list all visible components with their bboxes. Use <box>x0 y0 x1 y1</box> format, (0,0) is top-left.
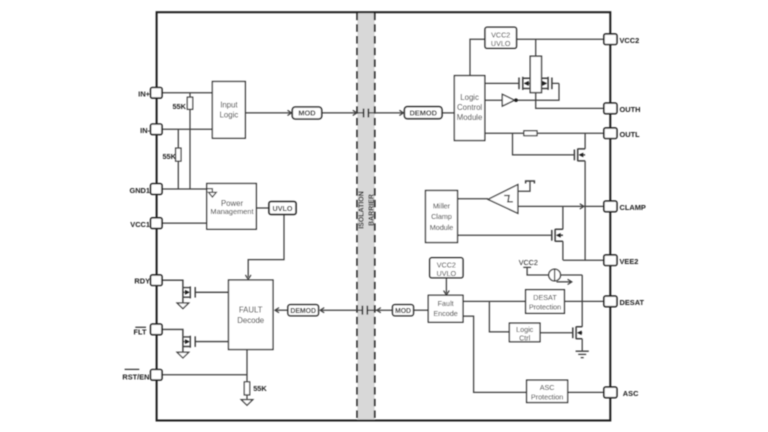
wire DEMOD to logic control module <box>442 112 454 114</box>
pin FLT <box>151 324 162 335</box>
wire comparator output to CLAMP pin <box>518 205 604 207</box>
wire VCC2 UVLO2 to fault encode <box>445 278 447 293</box>
ground under FLT fet <box>177 352 189 358</box>
buffer U1 <box>502 94 514 106</box>
IC outline frame <box>157 12 611 420</box>
wire comparator flag elbow <box>518 181 530 191</box>
RDY open-drain fet <box>162 280 229 303</box>
wire IN- row <box>162 128 213 130</box>
pin OUTL <box>604 128 617 139</box>
svg-text:ASC: ASC <box>623 389 639 398</box>
output fet right (pull side) <box>542 77 552 90</box>
svg-text:DEMOD: DEMOD <box>290 308 316 315</box>
wire desat fet source to ground <box>581 339 583 351</box>
resistor R3 55K body (RST/EN pulldown) <box>244 382 249 395</box>
wire resistor R1 vertical (IN+ to GND1 net) <box>189 93 191 189</box>
arrowhead into DEMOD2 right <box>320 308 324 313</box>
svg-text:BARRIER: BARRIER <box>368 194 375 226</box>
svg-text:Module: Module <box>457 113 483 122</box>
wire VEE2 row <box>563 259 604 261</box>
svg-text:MOD: MOD <box>395 308 411 315</box>
pin DESAT <box>604 296 617 307</box>
svg-text:OUTH: OUTH <box>620 105 641 114</box>
arrowhead into fault encode top <box>444 291 450 295</box>
pulldown fet on OUTL <box>574 149 585 162</box>
svg-text:OUTL: OUTL <box>620 130 641 139</box>
wire ASC protection to ASC pin <box>568 391 605 393</box>
wire DEMOD2 to fault decode <box>276 309 288 311</box>
svg-text:55K: 55K <box>253 384 267 393</box>
resistor on OUTL line <box>524 131 537 136</box>
wire VCC2 rail drop to output stage <box>535 39 537 56</box>
pin IN+ <box>151 88 162 99</box>
svg-text:VCC2: VCC2 <box>519 258 538 267</box>
svg-text:UVLO: UVLO <box>437 269 457 278</box>
wire OUTL row right of resistor to OUTL pin <box>537 132 604 134</box>
desat fet <box>573 327 582 340</box>
ground under R3 <box>241 400 253 406</box>
pin RDY <box>151 275 162 286</box>
block DEMOD2 <box>288 305 319 316</box>
arrowhead into barrier cap top <box>353 110 357 115</box>
wire miller clamp module to comparator <box>458 198 489 200</box>
svg-text:RDY: RDY <box>134 277 150 286</box>
arrowhead into fault decode top <box>245 275 251 279</box>
resistor R2 55K body <box>176 148 181 161</box>
wire resistor R2 vertical (IN- to GND1 net) <box>177 129 179 189</box>
svg-text:DESAT: DESAT <box>533 293 557 302</box>
pin VCC1 <box>151 218 162 229</box>
FLT open-drain fet <box>162 329 229 352</box>
svg-text:Miller: Miller <box>433 201 451 210</box>
svg-text:Management: Management <box>210 207 253 216</box>
svg-text:DESAT: DESAT <box>620 298 645 307</box>
wire MOD2 to cap <box>367 309 392 311</box>
wire logic ctrl to desat fet gate <box>540 332 573 334</box>
svg-text:IN-: IN- <box>140 126 150 135</box>
svg-text:Decode: Decode <box>237 316 264 325</box>
arrowhead into MOD1 <box>288 110 292 115</box>
current direction arrow <box>557 279 572 284</box>
block FAULT Decode <box>229 280 274 350</box>
wire branch to logic ctrl <box>489 301 509 332</box>
svg-text:Protection: Protection <box>531 392 563 401</box>
wire miller clamp module to clamp fet gate <box>458 234 552 236</box>
svg-text:ISOLATION: ISOLATION <box>359 191 366 229</box>
svg-text:Clamp: Clamp <box>431 212 452 221</box>
svg-text:Fault: Fault <box>438 299 454 308</box>
wire fault encode to DESAT protection <box>463 300 526 302</box>
pin GND1 <box>151 184 162 195</box>
capacitor across barrier top <box>364 109 369 118</box>
block MOD2 <box>393 305 414 316</box>
svg-text:Protection: Protection <box>529 302 561 311</box>
arrowhead left of MOD2 <box>377 308 381 313</box>
block Fault Encode <box>428 295 463 322</box>
gnd1 entry bent arrow inside power management <box>207 189 213 193</box>
wire GND1 row <box>162 188 207 190</box>
svg-text:CLAMP: CLAMP <box>620 203 646 212</box>
svg-text:ASC: ASC <box>540 383 555 392</box>
block Logic Ctrl <box>509 323 540 342</box>
block MOD1 <box>292 107 321 119</box>
wire OUTL tap to pulldown gate <box>513 133 575 155</box>
wire DESAT protection to DESAT pin <box>564 300 604 302</box>
output fet left (high side) <box>519 77 530 90</box>
wire power management to UVLO <box>256 207 269 209</box>
wire fault encode to MOD2 <box>414 309 429 311</box>
wire VCC1 row <box>162 222 207 224</box>
block Power Management <box>207 184 256 230</box>
comparator (miller clamp) <box>488 185 518 214</box>
svg-text:Encode: Encode <box>433 309 457 318</box>
block VCC2 UVLO 2 <box>430 258 463 278</box>
svg-text:UVLO: UVLO <box>273 204 293 213</box>
isolation barrier gray strip <box>357 13 374 421</box>
wire MOD to barrier cap <box>322 112 364 114</box>
svg-text:VCC1: VCC1 <box>130 220 150 229</box>
isolation barrier right dashed line <box>374 13 376 421</box>
wire buffer output loop to right gate <box>517 83 559 100</box>
svg-text:Control: Control <box>457 103 482 112</box>
wire UVLO to fault decode <box>248 214 284 277</box>
wire clamp fet source to VEE2 <box>562 241 564 260</box>
pin IN- <box>151 124 162 135</box>
buffer output junction dot <box>514 98 518 102</box>
wire logic control module riser to VCC2 UVLO <box>470 39 485 75</box>
block ASC Protection <box>527 380 568 402</box>
svg-text:Input: Input <box>220 100 238 109</box>
wire current source to desat node <box>561 274 583 276</box>
svg-text:FAULT: FAULT <box>239 306 263 315</box>
wire IN+ row <box>162 92 213 94</box>
one-shot flag on comparator <box>526 181 535 184</box>
svg-text:IN+: IN+ <box>138 89 150 98</box>
svg-text:VEE2: VEE2 <box>620 257 639 266</box>
wire input logic to MOD <box>245 112 290 114</box>
ground under RDY fet <box>177 303 189 309</box>
arrowhead into fault decode right <box>275 308 279 313</box>
block UVLO <box>269 202 296 215</box>
resistor R1 55K body <box>187 97 192 109</box>
svg-text:GND1: GND1 <box>129 186 150 195</box>
svg-text:55K: 55K <box>172 102 186 111</box>
wire VCC2 rail to VCC2 pin <box>517 38 605 40</box>
pin RST/EN <box>151 370 162 381</box>
VCC2 supply stub <box>523 267 549 275</box>
block Logic Control Module <box>454 76 484 141</box>
svg-text:MOD: MOD <box>298 109 316 118</box>
wire OUTL row left of resistor <box>485 132 524 134</box>
block DESAT Protection <box>526 290 565 314</box>
arrowhead into DEMOD1 <box>399 110 403 115</box>
clamp fet <box>552 229 563 242</box>
hysteresis glyph <box>504 196 513 202</box>
block Input Logic <box>212 82 245 139</box>
wire fault decode to 55K pulldown <box>246 350 248 400</box>
block DEMOD1 <box>404 107 442 119</box>
wire pulldown fet source to VEE2 <box>584 161 586 260</box>
wire barrier cap to DEMOD <box>368 112 403 114</box>
block Miller Clamp Module <box>426 191 458 243</box>
pin OUTH <box>604 103 617 114</box>
wire left output fet gate <box>485 82 519 84</box>
svg-text:Logic: Logic <box>220 111 239 120</box>
wire output stage to OUTH pin <box>536 93 605 109</box>
svg-text:Ctrl: Ctrl <box>519 333 531 342</box>
svg-text:DEMOD: DEMOD <box>409 109 437 118</box>
current source circle <box>549 269 561 281</box>
arrowhead on clamp line <box>580 204 584 209</box>
output stage shared drain bar <box>530 56 541 92</box>
svg-text:FLT: FLT <box>134 327 147 336</box>
pin ASC <box>604 387 617 398</box>
wire pulldown fet drain to OUTL <box>584 133 586 149</box>
earth ground under desat fet <box>576 351 589 357</box>
wire clamp fet drain to clamp line <box>562 206 564 229</box>
svg-text:Module: Module <box>430 223 454 232</box>
block VCC2 UVLO top <box>485 27 517 48</box>
svg-text:Logic: Logic <box>460 93 479 102</box>
wire desat fet drain up to current source node <box>581 275 583 327</box>
isolation barrier left dashed line <box>356 13 358 421</box>
pin VEE2 <box>604 255 617 266</box>
svg-text:VCC2: VCC2 <box>620 36 640 45</box>
wire fault encode to ASC protection <box>463 316 527 392</box>
svg-text:RST/EN: RST/EN <box>122 372 149 381</box>
capacitor across barrier bottom <box>362 306 367 315</box>
pin CLAMP <box>604 201 617 212</box>
wire cap to DEMOD2 <box>321 309 362 311</box>
pin VCC2 <box>604 34 617 45</box>
wire RST/EN row <box>162 374 247 376</box>
svg-text:UVLO: UVLO <box>491 39 511 48</box>
wire buffer input <box>485 99 503 101</box>
svg-text:55K: 55K <box>162 152 176 161</box>
